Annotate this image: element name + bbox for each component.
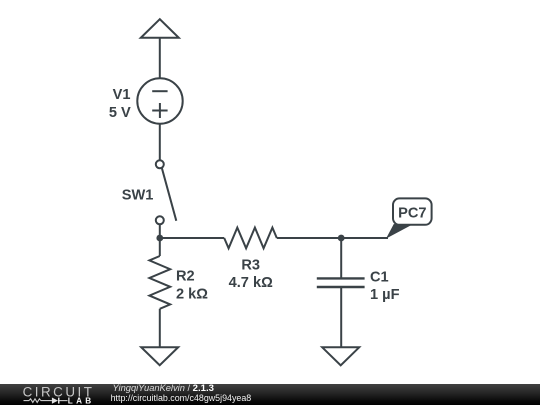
flag PC7 — [386, 198, 432, 238]
wire — [159, 124, 161, 161]
logo diode — [52, 398, 58, 404]
ground left — [141, 347, 178, 365]
wire — [341, 237, 388, 239]
wire — [340, 287, 342, 347]
svg-text:1 µF: 1 µF — [370, 287, 400, 303]
svg-text:SW1: SW1 — [122, 188, 154, 204]
wire — [160, 237, 224, 239]
svg-text:2 kΩ: 2 kΩ — [176, 287, 208, 303]
wire — [340, 238, 342, 278]
CircuitLab logo — [0, 384, 110, 405]
svg-text:4.7 kΩ: 4.7 kΩ — [229, 275, 273, 291]
footer bar — [0, 384, 540, 405]
wire — [159, 224, 161, 238]
logo resistor — [24, 399, 52, 403]
resistor R3 — [224, 228, 277, 249]
ground right — [322, 347, 359, 365]
node VCC top triangle — [141, 19, 179, 38]
svg-text:LAB: LAB — [68, 397, 95, 405]
node junction right — [338, 235, 345, 242]
wire — [159, 238, 161, 256]
switch SW1 — [156, 160, 177, 224]
svg-text:R2: R2 — [176, 269, 195, 285]
footer text line 2 — [111, 393, 252, 403]
svg-text:R3: R3 — [241, 258, 260, 274]
footer text line 1 — [113, 383, 214, 394]
svg-text:V1: V1 — [113, 87, 131, 103]
capacitor C1 — [317, 278, 365, 287]
resistor R2 — [149, 256, 170, 309]
svg-text:PC7: PC7 — [398, 206, 426, 222]
node junction left — [156, 235, 163, 242]
wire — [159, 309, 161, 347]
wire — [277, 237, 341, 239]
svg-text:C1: C1 — [370, 270, 389, 286]
wire — [159, 38, 161, 79]
svg-text:5 V: 5 V — [109, 105, 131, 121]
voltage source V1 — [137, 78, 182, 123]
